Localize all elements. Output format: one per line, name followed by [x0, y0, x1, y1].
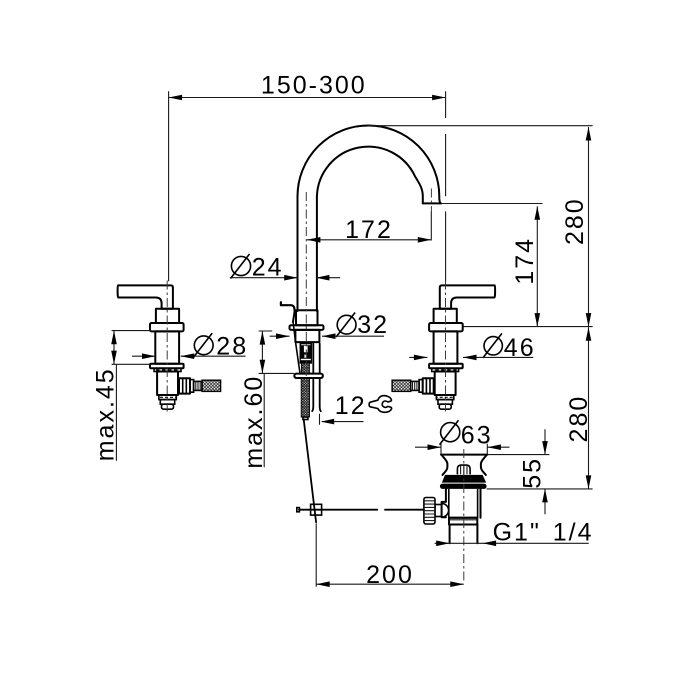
- spout outlet mouth: [423, 202, 441, 204]
- extension line left handle center: [168, 91, 170, 281]
- pop-up rod guide tube: [312, 344, 321, 412]
- drain centerline: [463, 449, 465, 581]
- drain pop-up waste assembly: [424, 449, 487, 581]
- rubber gasket: [442, 475, 486, 483]
- label G1 1/4: [435, 518, 594, 546]
- svg-text:32: 32: [357, 311, 389, 339]
- horizontal pull rod: [299, 509, 424, 511]
- clamp screw: [435, 505, 442, 517]
- dimension max.60: [240, 331, 294, 469]
- dimension max.45: [92, 331, 153, 462]
- svg-text:200: 200: [366, 561, 414, 589]
- spout centerline: [305, 192, 307, 419]
- svg-text:174: 174: [511, 237, 539, 285]
- wrench icon: [369, 396, 392, 413]
- svg-text:max.45: max.45: [92, 367, 120, 461]
- dimension 150-300: [169, 72, 446, 101]
- spout flange: [290, 325, 324, 330]
- dimension 172: [307, 216, 431, 244]
- knurled knob: [424, 498, 435, 525]
- svg-text:55: 55: [519, 457, 547, 489]
- drain dome left side: [442, 455, 448, 475]
- spout gooseneck inner contour: [317, 147, 423, 311]
- extension line right handle center: [445, 91, 447, 281]
- svg-text:280: 280: [565, 395, 593, 443]
- spout body: [296, 310, 318, 325]
- rod clamp: [311, 504, 322, 515]
- rod end ball: [297, 508, 300, 512]
- svg-text:172: 172: [345, 216, 393, 244]
- pop-up rod: [293, 311, 295, 322]
- left handle: [118, 281, 221, 412]
- drain body: [442, 489, 481, 518]
- shank tail: [303, 417, 308, 420]
- dimension 55: [487, 429, 549, 514]
- tailpipe nut: [449, 518, 477, 525]
- cartridge housing: [300, 344, 311, 363]
- svg-text:280: 280: [561, 197, 589, 245]
- svg-text:12: 12: [335, 392, 367, 420]
- gasket ring: [440, 484, 487, 489]
- lower knurled shank: [301, 378, 309, 417]
- pop-up rod knob: [281, 302, 295, 311]
- pop-up plug knob: [457, 465, 470, 474]
- dimension 280 upper: [369, 126, 593, 327]
- label dia 46: [409, 333, 535, 362]
- spout neck: [295, 330, 319, 342]
- label dia 28: [132, 332, 248, 360]
- label dia 32: [270, 311, 389, 339]
- upper knurled shank: [301, 363, 309, 374]
- clamp ball socket: [442, 504, 449, 517]
- drain dome top: [441, 454, 487, 456]
- drain dome right side: [481, 455, 487, 475]
- label 12 with wrench: [320, 392, 392, 425]
- outlet centerline: [430, 189, 432, 212]
- label dia 24: [230, 254, 340, 282]
- tailpipe: [450, 525, 478, 544]
- mounting washer: [294, 374, 323, 378]
- dimension 280 lower: [487, 327, 593, 489]
- dimension 174: [441, 204, 543, 327]
- dimension 200: [316, 523, 464, 589]
- label dia 63: [415, 420, 510, 455]
- svg-text:150-300: 150-300: [261, 72, 367, 100]
- svg-text:G1" 1/4: G1" 1/4: [493, 518, 594, 546]
- spout gooseneck outer contour: [298, 125, 442, 311]
- right handle (mirrored): [392, 281, 495, 412]
- svg-text:max.60: max.60: [240, 375, 268, 469]
